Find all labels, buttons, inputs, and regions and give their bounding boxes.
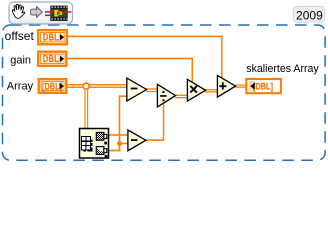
- wire multiply to add (array): [205, 89, 218, 93]
- dashed blue diagram border: [3, 25, 326, 160]
- wire subtract1 to divide (array): [146, 88, 158, 92]
- svg-text:offset: offset: [5, 29, 35, 43]
- toolbar frame: [9, 2, 73, 24]
- film-strip VI icon: [45, 6, 71, 21]
- 2009 badge: [293, 6, 324, 22]
- junction dot on min wire: [117, 141, 122, 146]
- subtract node S1: [127, 78, 147, 101]
- wire max to subtract2: [108, 134, 128, 136]
- svg-text:[DBL]: [DBL]: [253, 81, 273, 92]
- add node: [217, 75, 235, 97]
- junction on array wire: [83, 83, 89, 89]
- array grid glyph: [82, 137, 93, 152]
- subtract node S2 (max-min): [128, 130, 146, 151]
- Array Max & Min function icon: [80, 129, 109, 159]
- wire divide to multiply (array): [175, 95, 188, 99]
- max output glyph: [96, 132, 107, 144]
- indicator terminal skaliertes Array [DBL]: [246, 79, 281, 93]
- svg-text:[DBL]: [DBL]: [42, 81, 62, 92]
- control terminal Array [DBL]: [38, 78, 68, 94]
- control terminal gain DBL: [37, 51, 68, 68]
- hand tool icon: [12, 4, 24, 18]
- multiply node: [187, 79, 205, 101]
- wire offset to add: [66, 36, 223, 79]
- svg-text:2009: 2009: [296, 9, 323, 23]
- wire Array to subtract (array double wire): [66, 84, 128, 88]
- min output glyph: [96, 147, 107, 158]
- divide node: [157, 84, 175, 107]
- cursor arrow icon: [31, 7, 43, 18]
- svg-text:DBL: DBL: [43, 53, 60, 64]
- svg-text:DBL: DBL: [43, 32, 60, 43]
- wire subtract2 to divide: [146, 103, 165, 141]
- wire gain to multiply: [66, 58, 194, 83]
- svg-text:Array: Array: [7, 81, 34, 93]
- svg-text:gain: gain: [10, 55, 31, 67]
- wire min to subtract1 and subtract2: [108, 95, 128, 151]
- wire Array branch down to max-min (array double wire): [84, 86, 88, 129]
- control terminal offset DBL: [37, 29, 68, 46]
- wire add to indicator (array): [235, 85, 246, 88]
- svg-text:skaliertes Array: skaliertes Array: [246, 63, 319, 75]
